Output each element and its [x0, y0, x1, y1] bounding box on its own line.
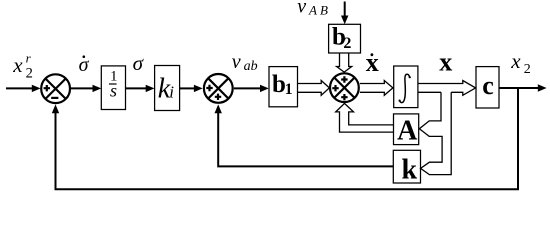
arrowhead into ki: [146, 85, 155, 92]
svg-text:s: s: [110, 81, 117, 101]
arrowhead feedback into S1 bottom: [52, 104, 59, 113]
wire c to output x2: [499, 87, 539, 89]
label x2r input: [12, 50, 33, 81]
arrowhead into S2: [194, 85, 203, 92]
wire ki to S2: [180, 87, 196, 89]
label sigma-dot: [79, 54, 90, 76]
arrowhead output x2: [538, 84, 547, 91]
vector pipe A to S3 bottom: [336, 103, 394, 132]
svg-text:x: x: [12, 53, 23, 77]
block label ki: [158, 74, 175, 105]
svg-text:2: 2: [343, 35, 351, 52]
wire vAB down to b2: [344, 2, 346, 18]
vector pipe b1 to S3: [298, 81, 330, 96]
svg-text:x: x: [439, 47, 452, 76]
svg-text:k: k: [402, 155, 418, 186]
svg-text:c: c: [482, 71, 494, 100]
summing junction S2: [204, 74, 233, 103]
svg-text:2: 2: [26, 65, 33, 81]
arrowhead into b1: [260, 85, 269, 92]
label vab: [232, 51, 258, 74]
vector pipe b2 down to S3: [337, 53, 352, 72]
vector pipe integrator to c with branch: [418, 81, 476, 96]
vector pipe branch down to A and k: [419, 92, 451, 174]
svg-text:1: 1: [285, 81, 293, 98]
block label b1: [272, 71, 293, 98]
svg-text:v: v: [232, 51, 241, 73]
wire S2 to b1: [234, 87, 262, 89]
wire S1 to 1/s: [71, 87, 94, 89]
svg-text:σ: σ: [133, 51, 145, 75]
block label 1/s: [109, 68, 118, 100]
wire 1/s to ki: [126, 87, 148, 89]
block k: [393, 150, 420, 183]
label vAB: [297, 0, 331, 18]
block 1/s: [101, 66, 125, 110]
block c: [476, 67, 499, 108]
svg-text:A: A: [397, 116, 418, 147]
arrowhead into S1: [32, 85, 41, 92]
svg-text:2: 2: [524, 62, 531, 77]
label xdot bold: [366, 48, 379, 77]
svg-text:i: i: [169, 83, 174, 102]
vector pipe S3 to integrator: [360, 81, 393, 96]
block integrator: [394, 66, 418, 108]
summing junction S1: [41, 74, 70, 103]
block label integrator: [400, 74, 410, 102]
arrowhead into b2: [341, 16, 348, 25]
block ki: [155, 66, 180, 111]
svg-text:ab: ab: [244, 59, 258, 74]
svg-text:x: x: [366, 48, 379, 77]
label x2 output: [510, 49, 531, 77]
summing junction S3: [330, 73, 359, 102]
arrowhead into 1/s: [93, 85, 102, 92]
svg-text:x: x: [510, 49, 521, 73]
block b2: [329, 24, 361, 53]
block b1: [269, 67, 298, 107]
block label b2: [332, 23, 351, 51]
arrowhead feedback into S2 bottom: [215, 104, 222, 113]
block A: [394, 114, 419, 145]
wire feedback k to S2: [218, 113, 393, 167]
svg-text:v: v: [297, 0, 306, 17]
svg-text:AB: AB: [308, 3, 331, 18]
wire feedback x2 to S1: [56, 88, 519, 189]
wire input to S1: [6, 87, 33, 89]
